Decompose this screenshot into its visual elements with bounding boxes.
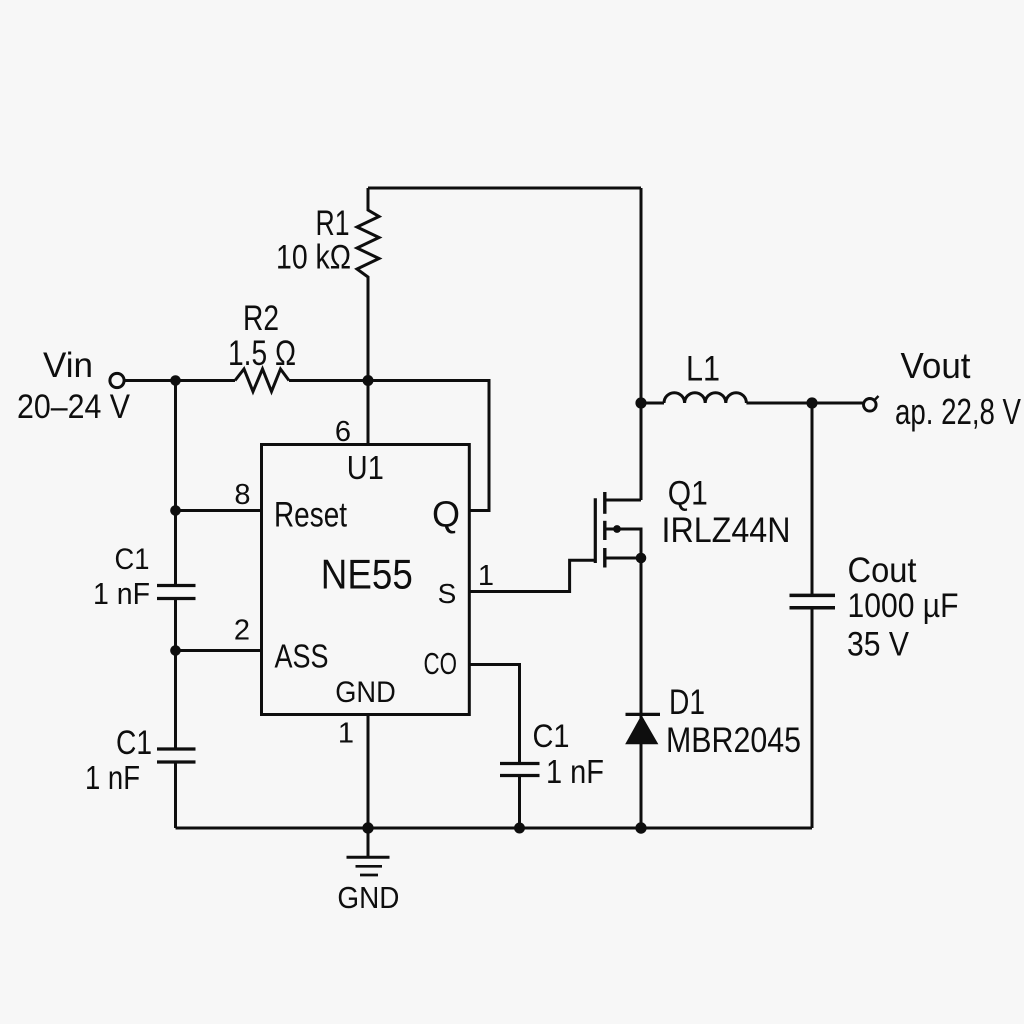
node C1 mid bottom junction bbox=[514, 823, 525, 834]
label pin 8 bbox=[234, 479, 250, 511]
label Cout bbox=[848, 551, 917, 590]
label C1 (lower left) bbox=[116, 724, 152, 762]
svg-text:MBR2045: MBR2045 bbox=[666, 721, 801, 760]
wire R2 to node at x=368 bbox=[289, 379, 368, 382]
label Vout bbox=[901, 345, 971, 386]
label 10 kΩ bbox=[276, 239, 351, 277]
svg-text:R2: R2 bbox=[243, 299, 279, 338]
wire MOSFET source down through diode to bottom rail bbox=[640, 558, 643, 828]
svg-text:Vin: Vin bbox=[43, 346, 93, 385]
label 20–24 V bbox=[17, 388, 130, 426]
node Vin junction bbox=[170, 375, 181, 386]
svg-text:1: 1 bbox=[338, 718, 354, 750]
wire Vin terminal to R2 bbox=[125, 379, 236, 382]
gate electrode bbox=[594, 498, 597, 563]
terminal Vout bbox=[864, 399, 877, 412]
wire CO pin to C1 capacitor bbox=[469, 665, 519, 764]
svg-text:GND: GND bbox=[335, 676, 396, 709]
wire left rail Vin node down to C1 bbox=[174, 381, 177, 586]
body stub and corner down to source bbox=[605, 529, 641, 558]
capacitor C1 (upper left) bbox=[157, 586, 196, 599]
label ap. 22,8 V bbox=[895, 391, 1021, 432]
label 1.5 Ω bbox=[228, 334, 296, 373]
capacitor C1 (timing, mid) bbox=[500, 764, 540, 776]
drain stub bbox=[605, 499, 641, 502]
svg-text:Reset: Reset bbox=[274, 496, 347, 535]
terminal Vin bbox=[110, 373, 124, 387]
capacitor Cout bbox=[790, 595, 836, 607]
label C1 (mid) bbox=[533, 718, 570, 754]
drain bar bbox=[603, 492, 606, 514]
svg-text:1 nF: 1 nF bbox=[93, 576, 150, 611]
node L1 left junction bbox=[635, 397, 646, 408]
node R2/R1/pin6 junction bbox=[363, 375, 374, 386]
svg-text:1: 1 bbox=[478, 560, 494, 592]
wire GND pin (box bottom to bottom rail) bbox=[367, 715, 370, 829]
svg-text:C1: C1 bbox=[533, 718, 570, 754]
node body dot bbox=[613, 525, 621, 533]
wire left rail C1 lower to bottom rail bbox=[174, 762, 177, 828]
diode D1 cathode bar bbox=[626, 713, 661, 716]
wire reset pin 8 bbox=[176, 509, 263, 512]
svg-text:L1: L1 bbox=[686, 350, 720, 389]
node Vout junction bbox=[806, 397, 817, 408]
label NE55 bbox=[321, 551, 413, 598]
label GND (inside box) bbox=[335, 676, 396, 709]
label pin 6 bbox=[335, 416, 351, 448]
label GND (ground) bbox=[337, 880, 399, 915]
svg-text:U1: U1 bbox=[347, 449, 384, 486]
label R1 bbox=[316, 204, 350, 243]
svg-text:C1: C1 bbox=[116, 724, 152, 762]
svg-text:Vout: Vout bbox=[901, 345, 971, 386]
wire node to Q-pin corner bbox=[368, 381, 489, 511]
label U1 bbox=[347, 449, 384, 486]
svg-text:NE55: NE55 bbox=[321, 551, 413, 598]
svg-text:S: S bbox=[438, 578, 457, 609]
label pin 1 (GND pin) bbox=[338, 718, 354, 750]
svg-text:D1: D1 bbox=[669, 683, 705, 722]
svg-text:C1: C1 bbox=[115, 543, 150, 576]
svg-text:1.5 Ω: 1.5 Ω bbox=[228, 334, 296, 373]
label L1 bbox=[686, 350, 720, 389]
op-amp U1 (NE55 timer box) bbox=[262, 445, 470, 715]
inductor L1 bbox=[641, 393, 812, 403]
label 35 V bbox=[847, 626, 909, 664]
svg-text:1 nF: 1 nF bbox=[85, 759, 140, 796]
wire S pin to MOSFET gate bbox=[469, 560, 595, 591]
svg-text:2: 2 bbox=[234, 615, 250, 647]
svg-text:ap. 22,8 V: ap. 22,8 V bbox=[895, 391, 1021, 432]
capacitor C1 (lower left) bbox=[157, 749, 196, 762]
label 1 nF (lower left) bbox=[85, 759, 140, 796]
label IRLZ44N bbox=[662, 511, 791, 550]
svg-text:IRLZ44N: IRLZ44N bbox=[662, 511, 791, 550]
label 1 nF (mid) bbox=[546, 753, 604, 790]
svg-text:CO: CO bbox=[424, 646, 458, 681]
transistor Q1 MOSFET bbox=[595, 492, 641, 568]
wire drain column upper (top rail through L1 node to MOSFET drain stub) bbox=[640, 188, 643, 500]
label 1 nF (upper left) bbox=[93, 576, 150, 611]
label CO (pin) bbox=[424, 646, 458, 681]
svg-text:ASS: ASS bbox=[275, 638, 329, 675]
label Reset bbox=[274, 496, 347, 535]
node source dot bbox=[636, 553, 647, 564]
node reset junction bbox=[170, 505, 181, 516]
wire ASS pin 2 bbox=[176, 649, 263, 652]
resistor R2 bbox=[235, 369, 289, 392]
wire L1 node to Vout terminal bbox=[812, 402, 863, 405]
node ground junction bbox=[362, 822, 373, 833]
svg-text:8: 8 bbox=[234, 479, 250, 511]
wire Cout to bottom rail bbox=[811, 608, 814, 828]
label 1000 µF bbox=[848, 587, 959, 625]
wire bottom rail bbox=[176, 827, 813, 830]
label C1 (upper left) bbox=[115, 543, 150, 576]
wire top rail from R1 top to drain column bbox=[368, 187, 641, 190]
node ASS junction bbox=[170, 645, 181, 656]
svg-text:35 V: 35 V bbox=[847, 626, 909, 664]
svg-text:1 nF: 1 nF bbox=[546, 753, 604, 790]
svg-text:1000 µF: 1000 µF bbox=[848, 587, 959, 625]
wire pin 6 (node to box top) bbox=[367, 381, 370, 445]
node diode bottom junction bbox=[635, 822, 646, 833]
label Q (output pin) bbox=[432, 494, 460, 535]
svg-text:Cout: Cout bbox=[848, 551, 917, 590]
svg-text:20–24 V: 20–24 V bbox=[17, 388, 130, 426]
resistor R1 bbox=[357, 188, 379, 381]
ground bbox=[347, 828, 390, 875]
svg-text:6: 6 bbox=[335, 416, 351, 448]
svg-text:Q: Q bbox=[432, 494, 460, 535]
label MBR2045 bbox=[666, 721, 801, 760]
label Vin bbox=[43, 346, 93, 385]
svg-text:10 kΩ: 10 kΩ bbox=[276, 239, 351, 277]
label D1 bbox=[669, 683, 705, 722]
svg-text:R1: R1 bbox=[316, 204, 350, 243]
svg-text:Q1: Q1 bbox=[668, 475, 708, 513]
source stub bbox=[605, 557, 641, 560]
wire Vout node down to Cout bbox=[811, 403, 814, 595]
wire C1 mid to bottom rail bbox=[518, 776, 521, 829]
wire left rail between C1 and C1 lower bbox=[174, 599, 177, 750]
label ASS bbox=[275, 638, 329, 675]
body bar bbox=[603, 521, 606, 540]
label pin 2 bbox=[234, 615, 250, 647]
label R2 bbox=[243, 299, 279, 338]
diode D1 triangle bbox=[626, 716, 658, 744]
label Q1 bbox=[668, 475, 708, 513]
svg-text:GND: GND bbox=[337, 880, 399, 915]
source bar bbox=[603, 548, 606, 568]
label pin 1 (S pin) bbox=[478, 560, 494, 592]
label S (pin) bbox=[438, 578, 457, 609]
